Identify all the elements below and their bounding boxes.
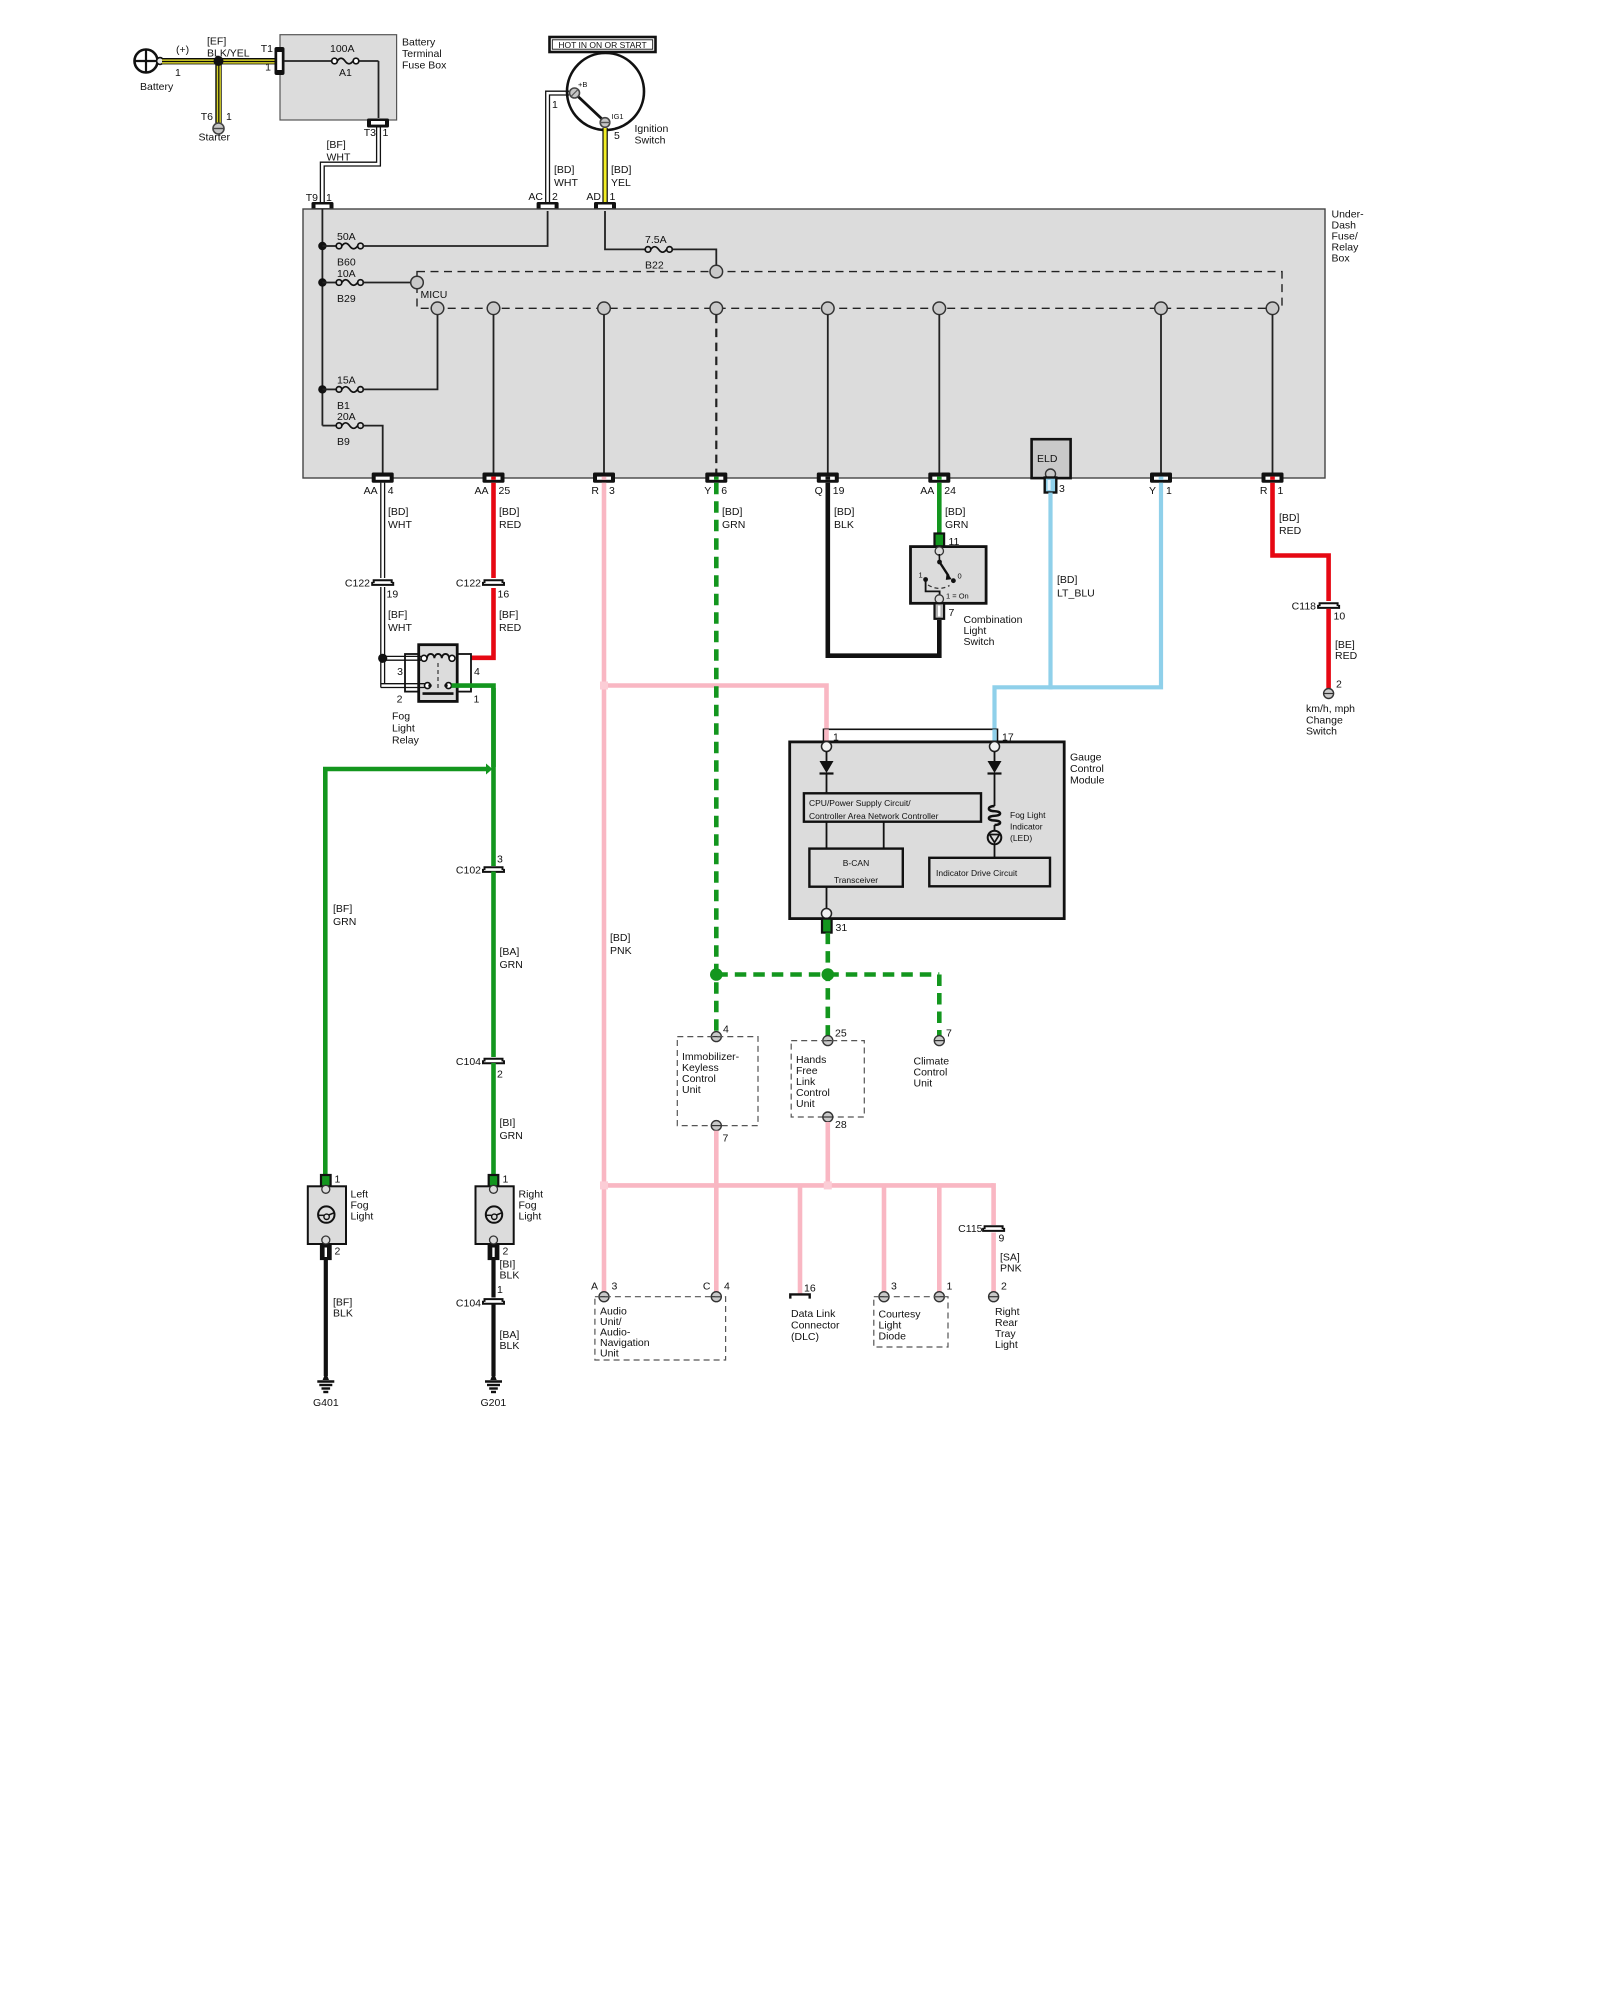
svg-text:PNK: PNK <box>610 945 632 957</box>
wire BA BLK C104 to ground <box>494 1305 520 1377</box>
wire PNK bus to DLC 16 <box>798 1185 803 1294</box>
junction dot battery wire <box>214 56 224 66</box>
svg-text:R: R <box>591 485 599 497</box>
svg-text:[BD]: [BD] <box>1057 574 1078 586</box>
MICU terminal circle to Q19 <box>822 302 835 315</box>
svg-text:T6: T6 <box>201 111 213 123</box>
connector C118 pin 10 <box>1292 601 1346 623</box>
svg-text:25: 25 <box>835 1028 847 1040</box>
wire GRN dashed horizontal bus <box>716 975 939 1038</box>
wire WHT junction to coil pin 3 <box>383 656 421 660</box>
svg-text:CPU/Power Supply Circuit/: CPU/Power Supply Circuit/ <box>809 798 911 808</box>
svg-text:GRN: GRN <box>722 519 745 531</box>
svg-text:Starter: Starter <box>199 132 231 144</box>
hands free link terminal 28 <box>823 1112 847 1131</box>
terminal AA 4 <box>364 473 394 498</box>
svg-text:1: 1 <box>947 1281 953 1293</box>
svg-text:6: 6 <box>721 485 727 497</box>
svg-text:[BD]: [BD] <box>554 164 575 176</box>
wire BF BLK left fog to ground <box>326 1259 353 1376</box>
right rear tray light terminal 2 <box>989 1281 1007 1302</box>
svg-text:7: 7 <box>723 1133 729 1145</box>
svg-text:1: 1 <box>1278 485 1284 497</box>
wire BE RED C118 to switch <box>1329 609 1358 688</box>
resistor fog light indicator <box>989 806 1046 843</box>
wire AD1 to fuse B22 <box>605 211 645 249</box>
MICU terminal circle to AA25 <box>487 302 500 315</box>
svg-text:Relay: Relay <box>392 735 420 747</box>
connector C104 pin 1 <box>456 1284 504 1310</box>
connector T9 <box>306 192 334 211</box>
fuse B9 20A <box>322 411 382 474</box>
svg-text:10: 10 <box>1334 611 1346 623</box>
svg-text:Transceiver: Transceiver <box>834 875 878 885</box>
svg-text:C102: C102 <box>456 865 481 877</box>
svg-text:9: 9 <box>999 1233 1005 1245</box>
svg-text:[BF]: [BF] <box>327 139 346 151</box>
svg-text:+B: +B <box>578 80 587 89</box>
svg-text:B-CAN: B-CAN <box>843 858 869 868</box>
connector C104 pin 2 <box>456 1056 504 1081</box>
svg-text:[BD]: [BD] <box>611 164 632 176</box>
svg-text:Unit: Unit <box>796 1098 815 1110</box>
svg-text:BLK: BLK <box>500 1270 520 1282</box>
svg-text:C104: C104 <box>456 1056 481 1068</box>
right fog light <box>476 1185 544 1244</box>
wires CPU to B-CAN <box>827 822 884 849</box>
svg-text:Fog: Fog <box>392 711 410 723</box>
svg-text:BLK: BLK <box>500 1340 520 1352</box>
battery terminal fuse box <box>280 35 447 120</box>
MICU dashed box <box>417 272 1282 309</box>
svg-text:AC: AC <box>528 191 543 203</box>
CPU box <box>804 793 981 821</box>
right rear tray light label <box>995 1306 1020 1351</box>
wire MICU to Y1 <box>1160 315 1162 474</box>
immobilizer terminal 4 <box>711 1024 729 1042</box>
svg-text:4: 4 <box>723 1024 729 1036</box>
courtesy light diode box <box>874 1297 948 1347</box>
svg-text:[BD]: [BD] <box>945 506 966 518</box>
svg-text:C118: C118 <box>1292 601 1316 613</box>
svg-text:1: 1 <box>383 127 389 139</box>
junction dot WHT at relay <box>378 654 387 663</box>
svg-text:Ignition: Ignition <box>635 123 669 135</box>
wire MICU to Q19 <box>827 315 829 474</box>
svg-text:Light: Light <box>519 1211 542 1223</box>
indicator drive circuit box <box>929 858 1050 887</box>
ground G401 <box>313 1372 339 1409</box>
climate control unit label <box>914 1056 950 1090</box>
svg-text:4: 4 <box>724 1281 730 1293</box>
svg-text:LT_BLU: LT_BLU <box>1057 588 1095 600</box>
junction dot green at pin31 branch <box>822 968 835 981</box>
svg-text:WHT: WHT <box>554 177 578 189</box>
svg-text:BLK: BLK <box>333 1308 353 1320</box>
fuse B29 10A <box>322 268 411 305</box>
svg-text:AA: AA <box>474 485 488 497</box>
hands free link control unit box <box>791 1041 864 1117</box>
svg-text:C115: C115 <box>958 1223 982 1235</box>
svg-text:Y: Y <box>1149 485 1156 497</box>
svg-text:Light: Light <box>995 1339 1018 1351</box>
svg-text:BLK: BLK <box>834 519 854 531</box>
svg-text:Switch: Switch <box>1306 726 1337 738</box>
svg-text:BLK/YEL: BLK/YEL <box>207 48 250 60</box>
svg-text:[BD]: [BD] <box>499 506 520 518</box>
svg-text:WHT: WHT <box>327 152 351 164</box>
svg-text:Q: Q <box>815 485 823 497</box>
wire GRN relay pin1 to down <box>452 686 494 767</box>
gauge pin 1 circle <box>822 742 832 752</box>
svg-text:Switch: Switch <box>635 135 666 147</box>
svg-text:Diode: Diode <box>879 1331 907 1343</box>
MICU terminal circle top (B22 feed) <box>710 265 723 278</box>
svg-text:4: 4 <box>388 485 394 497</box>
diode at pin 17 <box>988 752 1002 807</box>
gauge pin 31 circle <box>822 909 832 919</box>
wire MICU to AA25 <box>493 315 495 474</box>
svg-text:Fuse Box: Fuse Box <box>402 60 447 72</box>
wire BD WHT from AA4 <box>381 483 413 578</box>
svg-text:1 = On: 1 = On <box>946 592 969 601</box>
terminal R 3 <box>591 473 615 498</box>
svg-text:RED: RED <box>499 622 522 634</box>
wire BF RED C122 to relay <box>458 588 522 658</box>
fuse B22 7.5A <box>645 234 716 272</box>
svg-text:2: 2 <box>397 694 403 706</box>
immobilizer terminal 7 <box>711 1121 728 1145</box>
svg-text:3: 3 <box>612 1281 618 1293</box>
svg-text:7.5A: 7.5A <box>645 234 667 246</box>
svg-text:GRN: GRN <box>500 959 523 971</box>
svg-text:1: 1 <box>474 694 480 706</box>
svg-text:Terminal: Terminal <box>402 48 442 60</box>
combination light switch <box>911 547 1023 648</box>
courtesy light diode terminal 1 <box>934 1281 952 1302</box>
svg-text:Box: Box <box>1332 253 1351 265</box>
svg-text:Connector: Connector <box>791 1320 840 1332</box>
wire PNK hands free 28 to bus <box>825 1122 830 1185</box>
svg-text:1: 1 <box>610 191 616 203</box>
svg-text:3: 3 <box>609 485 615 497</box>
svg-text:GRN: GRN <box>333 916 356 928</box>
wire BD BLK from Q19 <box>828 483 940 656</box>
combination light switch pin 7 <box>935 603 955 619</box>
terminal AA 24 <box>920 473 956 498</box>
terminal AA 25 <box>474 473 510 498</box>
connector AD 1 <box>586 191 616 211</box>
climate control terminal 7 <box>934 1028 952 1046</box>
svg-text:[BD]: [BD] <box>388 506 409 518</box>
gauge control module <box>790 742 1105 919</box>
wire PNK branch to gauge pin 1 <box>600 682 827 743</box>
fuse A1 100A <box>330 43 359 79</box>
MICU terminal circle to R1 <box>1266 302 1279 315</box>
svg-text:C122: C122 <box>456 578 481 590</box>
wire PNK horizontal bus <box>600 1181 994 1189</box>
svg-text:Unit: Unit <box>914 1078 933 1090</box>
immobilizer-keyless control unit box <box>677 1037 758 1126</box>
svg-text:3: 3 <box>1059 483 1065 495</box>
svg-text:[EF]: [EF] <box>207 36 226 48</box>
svg-text:A: A <box>591 1281 598 1293</box>
svg-text:50A: 50A <box>337 231 356 243</box>
terminal R 1 <box>1260 473 1284 498</box>
svg-text:7: 7 <box>946 1028 952 1040</box>
svg-text:1: 1 <box>1166 485 1172 497</box>
right fog light pin 1 <box>489 1174 509 1189</box>
svg-text:(LED): (LED) <box>1010 833 1032 843</box>
svg-text:[BD]: [BD] <box>834 506 855 518</box>
wire BF WHT C122 to relay <box>381 587 413 656</box>
svg-text:MICU: MICU <box>421 289 448 301</box>
MICU terminal circle left (10A feed) <box>411 276 424 289</box>
svg-text:16: 16 <box>804 1283 816 1295</box>
svg-text:AA: AA <box>920 485 934 497</box>
svg-text:1: 1 <box>175 67 181 79</box>
under-dash fuse/relay box <box>303 209 1364 479</box>
wire WHT junction down to contact pin 2 <box>381 658 425 687</box>
wire B-CAN to pin 31 <box>826 887 828 914</box>
svg-text:[BF]: [BF] <box>388 609 407 621</box>
data link connector terminal 16 <box>790 1283 816 1299</box>
svg-text:T9: T9 <box>306 192 318 204</box>
wire RED from R1 to C118 <box>1273 483 1329 601</box>
svg-text:YEL: YEL <box>611 177 631 189</box>
svg-text:[BD]: [BD] <box>610 932 631 944</box>
terminal ELD 3 <box>1045 478 1065 496</box>
svg-text:3: 3 <box>891 1281 897 1293</box>
svg-text:15A: 15A <box>337 375 356 387</box>
svg-text:HOT IN ON OR START: HOT IN ON OR START <box>558 40 646 50</box>
svg-text:0: 0 <box>958 572 962 581</box>
audio unit / audio-navigation unit box <box>595 1297 726 1360</box>
svg-text:Module: Module <box>1070 775 1105 787</box>
wire GRN from AA24 <box>939 483 968 534</box>
wire PNK from R3 <box>604 483 632 1296</box>
svg-text:3: 3 <box>497 854 503 866</box>
svg-text:1: 1 <box>497 1284 503 1296</box>
svg-text:km/h, mph: km/h, mph <box>1306 703 1355 715</box>
svg-text:1: 1 <box>503 1174 509 1186</box>
svg-text:16: 16 <box>498 589 510 601</box>
svg-text:(DLC): (DLC) <box>791 1331 819 1343</box>
svg-text:Gauge: Gauge <box>1070 752 1102 764</box>
svg-text:Light: Light <box>392 723 415 735</box>
wire MICU to R1 <box>1272 315 1274 474</box>
gauge pin 17 circle <box>990 742 1000 752</box>
svg-text:Light: Light <box>351 1211 374 1223</box>
connector C122 pin 19 <box>345 578 398 601</box>
svg-text:31: 31 <box>836 922 848 934</box>
wire MICU to R3 <box>603 315 605 474</box>
svg-text:10A: 10A <box>337 268 356 280</box>
MICU terminal circle B1 feed <box>431 302 444 315</box>
svg-text:[BD]: [BD] <box>1279 512 1300 524</box>
svg-text:T3: T3 <box>364 127 376 139</box>
svg-text:2: 2 <box>503 1246 509 1258</box>
svg-text:19: 19 <box>833 485 845 497</box>
wire BLK/YEL battery to T1 <box>162 36 278 65</box>
MICU terminal circle to Y6 <box>710 302 723 315</box>
combination light switch pin 11 <box>935 534 960 549</box>
svg-text:G401: G401 <box>313 1397 339 1409</box>
svg-text:2: 2 <box>497 1069 503 1081</box>
svg-text:C122: C122 <box>345 578 370 590</box>
connector AC 2 <box>528 191 558 211</box>
left fog light <box>308 1185 374 1244</box>
svg-text:PNK: PNK <box>1000 1263 1022 1275</box>
HOT IN ON OR START box <box>550 37 656 52</box>
fuse B60 50A <box>322 211 547 269</box>
svg-text:G201: G201 <box>481 1397 507 1409</box>
wire GRN relay to C102 <box>491 688 496 866</box>
left fog light pin 1 <box>321 1174 341 1189</box>
wire BI GRN C104 to right fog light <box>494 1063 523 1175</box>
data link connector label <box>791 1308 840 1343</box>
svg-text:AA: AA <box>364 485 378 497</box>
svg-text:28: 28 <box>835 1119 847 1131</box>
svg-text:24: 24 <box>944 485 956 497</box>
gauge control module connector bar <box>824 729 1014 743</box>
svg-text:1: 1 <box>335 1174 341 1186</box>
terminal Y 1 <box>1149 473 1172 498</box>
svg-text:25: 25 <box>499 485 511 497</box>
right fog light pin 2 <box>489 1246 509 1260</box>
svg-text:RED: RED <box>499 519 522 531</box>
ignition switch <box>567 53 669 147</box>
junction B29 tap <box>318 278 326 286</box>
svg-text:4: 4 <box>474 666 480 678</box>
wire T9 bus inside box <box>321 209 323 426</box>
svg-text:7: 7 <box>949 607 955 619</box>
svg-text:C104: C104 <box>456 1298 481 1310</box>
svg-text:Battery: Battery <box>402 37 436 49</box>
svg-text:IG1: IG1 <box>612 112 624 121</box>
svg-text:Data Link: Data Link <box>791 1308 836 1320</box>
svg-text:B60: B60 <box>337 257 356 269</box>
svg-text:5: 5 <box>614 130 620 142</box>
wire inside battery fuse box <box>284 61 379 118</box>
svg-text:Control: Control <box>1070 763 1104 775</box>
svg-text:100A: 100A <box>330 43 355 55</box>
svg-text:1: 1 <box>326 192 332 204</box>
starter <box>199 111 233 144</box>
svg-text:B22: B22 <box>645 260 664 272</box>
fuse B1 15A <box>322 315 437 412</box>
svg-text:1: 1 <box>265 62 271 74</box>
wire PNK bus to courtesy 1 <box>937 1185 942 1296</box>
svg-text:2: 2 <box>1001 1281 1007 1293</box>
wire BD WHT +B to AC2 <box>546 91 579 202</box>
svg-text:Fog Light: Fog Light <box>1010 810 1046 820</box>
svg-text:Indicator: Indicator <box>1010 822 1043 832</box>
wire RED from AA25 <box>494 483 522 578</box>
gauge pin 31 connector <box>822 919 847 934</box>
wire LT_BLU from ELD3 <box>1051 493 1095 690</box>
ELD box <box>1032 439 1071 479</box>
junction B1 tap <box>318 385 326 393</box>
hands free link terminal 25 <box>823 1028 847 1046</box>
svg-text:1: 1 <box>226 111 232 123</box>
wire BA GRN C102 to C104 <box>494 872 523 1058</box>
km/h mph change switch terminal 2 <box>1306 679 1355 738</box>
svg-text:1: 1 <box>919 571 923 580</box>
MICU terminal circle to R3 <box>598 302 611 315</box>
svg-text:[BI]: [BI] <box>500 1117 516 1129</box>
wire PNK bus to courtesy 3 <box>882 1185 887 1296</box>
wire PNK bus to C115 <box>991 1185 993 1225</box>
diode at pin 1 <box>820 752 834 794</box>
connector C102 pin 3 <box>456 854 504 877</box>
svg-text:[BA]: [BA] <box>500 946 520 958</box>
svg-text:2: 2 <box>552 191 558 203</box>
junction B60 tap <box>318 242 326 250</box>
svg-text:R: R <box>1260 485 1268 497</box>
wire BD YEL IG1 to AD1 <box>602 128 631 208</box>
wire BI BLK right fog to C104 <box>494 1259 520 1298</box>
connector C122 pin 16 <box>456 578 509 601</box>
connector T3 <box>364 119 389 140</box>
svg-text:3: 3 <box>397 666 403 678</box>
wire LT_BLU from Y1 joining ELD wire <box>995 483 1162 742</box>
svg-text:B29: B29 <box>337 293 356 305</box>
MICU terminal circle to AA24 <box>933 302 946 315</box>
svg-text:19: 19 <box>387 589 399 601</box>
svg-text:[BF]: [BF] <box>333 903 352 915</box>
connector T1 <box>261 43 285 75</box>
svg-text:RED: RED <box>1279 525 1302 537</box>
svg-text:Y: Y <box>704 485 711 497</box>
svg-text:GRN: GRN <box>500 1130 523 1142</box>
ground G201 <box>481 1372 507 1409</box>
wire GRN dashed pin31 to junction <box>825 933 830 1038</box>
svg-text:C: C <box>703 1281 711 1293</box>
wire BF WHT T3 to T9 <box>320 127 380 202</box>
audio unit terminal C 4 <box>703 1281 730 1302</box>
svg-text:Unit: Unit <box>600 1348 619 1360</box>
svg-text:AD: AD <box>586 191 601 203</box>
connector C115 pin 9 <box>958 1223 1004 1245</box>
svg-text:ELD: ELD <box>1037 453 1058 465</box>
svg-text:Switch: Switch <box>964 636 995 648</box>
svg-text:B9: B9 <box>337 436 350 448</box>
terminal Q 19 <box>815 473 845 498</box>
junction dot green at Y6 branch <box>710 968 723 981</box>
wire MICU to AA24 <box>938 315 940 474</box>
courtesy light diode terminal 3 <box>879 1281 897 1302</box>
svg-text:Indicator Drive Circuit: Indicator Drive Circuit <box>936 868 1018 878</box>
wire PNK immobilizer 7 to bus <box>714 1131 719 1296</box>
svg-text:1: 1 <box>552 99 558 111</box>
svg-text:2: 2 <box>335 1246 341 1258</box>
fog light relay <box>392 645 480 747</box>
svg-text:Battery: Battery <box>140 81 174 93</box>
svg-text:T1: T1 <box>261 43 273 55</box>
MICU terminal circle to Y1 <box>1155 302 1168 315</box>
svg-text:Unit: Unit <box>682 1084 701 1096</box>
svg-text:WHT: WHT <box>388 622 412 634</box>
left fog light pin 2 <box>321 1246 341 1260</box>
svg-text:[BD]: [BD] <box>722 506 743 518</box>
wire GRN branch to left fog light <box>325 764 492 1176</box>
svg-text:[BF]: [BF] <box>499 609 518 621</box>
svg-text:A1: A1 <box>339 67 352 79</box>
svg-text:WHT: WHT <box>388 519 412 531</box>
battery <box>135 44 190 93</box>
svg-text:GRN: GRN <box>945 519 968 531</box>
